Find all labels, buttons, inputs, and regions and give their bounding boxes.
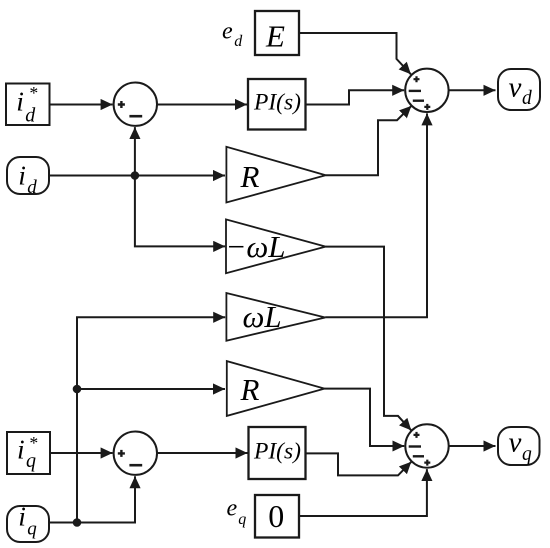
svg-text:v: v: [509, 72, 522, 104]
svg-text:i: i: [17, 433, 25, 464]
svg-text:q: q: [26, 450, 36, 472]
wire i_q branch up to wL input: [77, 317, 225, 522]
box vd output: [498, 69, 540, 110]
svg-text:i: i: [16, 85, 24, 116]
wire i_d* to summing junction S1: [50, 104, 113, 106]
box iq* (input i_q reference): [7, 432, 50, 474]
box iq (measured current): [7, 506, 49, 542]
sign minus low S4: [413, 455, 424, 457]
sign minus mid S2: [409, 90, 421, 92]
svg-text:PI(s): PI(s): [253, 439, 301, 465]
node junction on branch for R q: [73, 385, 82, 394]
node junction i_q line: [73, 518, 82, 527]
node junction on i_d line: [131, 171, 140, 180]
wire wL output to S2 bottom: [325, 113, 427, 317]
wire R q output to summing junction S4: [325, 389, 405, 446]
gain R d-axis triangle: [226, 147, 325, 203]
label vd text: [509, 72, 533, 109]
svg-text:i: i: [18, 159, 26, 190]
wire 0 box to S4 bottom: [299, 469, 427, 516]
sign plus top S2: [414, 76, 420, 82]
svg-text:d: d: [25, 105, 36, 127]
sign minus mid S4: [409, 445, 421, 447]
svg-text:R: R: [240, 159, 260, 194]
box id (measured current): [7, 157, 49, 194]
sign plus bottom S4: [424, 460, 430, 466]
svg-text:*: *: [29, 433, 38, 453]
gain -wL triangle: [226, 219, 326, 273]
svg-text:e: e: [222, 18, 233, 44]
box E (grid voltage feed-forward): [255, 11, 299, 55]
wire i_q* to summing junction S3: [50, 452, 113, 454]
svg-text:i: i: [18, 501, 26, 532]
sign plus S3: [118, 450, 125, 457]
sign minus S1: [129, 115, 142, 118]
svg-text:d: d: [27, 177, 37, 198]
svg-text:0: 0: [268, 498, 284, 534]
label i_q text: [18, 501, 37, 540]
sign plus top S4: [414, 432, 420, 438]
svg-text:*: *: [29, 83, 38, 103]
svg-text:ωL: ωL: [243, 299, 282, 334]
box vq output: [498, 427, 540, 465]
svg-text:q: q: [522, 444, 532, 465]
wire S1 to PI block: [157, 104, 247, 106]
svg-text:d: d: [234, 33, 243, 50]
block PI(s) q-axis: [249, 427, 306, 479]
label i_q* text: [17, 433, 38, 472]
label vq text: [509, 427, 533, 465]
label i_d* text: [16, 83, 37, 127]
wire S2 to vd: [449, 89, 496, 91]
wire S4 to vq: [449, 445, 496, 447]
block PI(s) d-axis: [248, 79, 306, 130]
wire junction to gain R q-axis: [77, 388, 225, 390]
svg-text:R: R: [240, 372, 260, 407]
svg-text:−ωL: −ωL: [226, 229, 286, 264]
wire -wL output to summing junction S4: [326, 247, 412, 431]
svg-text:E: E: [265, 19, 285, 54]
svg-text:q: q: [238, 511, 246, 528]
wire junction up to S1: [134, 127, 136, 175]
wire PI(s) q output to S4: [306, 453, 412, 475]
sign minus S3: [129, 464, 142, 467]
wire S3 to PI q block: [157, 452, 248, 454]
wire E to summing junction S2: [299, 33, 411, 74]
summing junction S1: [114, 83, 157, 126]
sign plus bottom S2: [424, 104, 430, 110]
box id* (input i_d reference): [6, 84, 50, 126]
summing junction S2: [405, 69, 448, 112]
wire i_d to gain R d-axis: [49, 175, 225, 177]
sign plus S1: [118, 101, 125, 108]
svg-text:v: v: [509, 427, 522, 459]
gain R q-axis triangle: [227, 361, 325, 416]
svg-text:PI(s): PI(s): [253, 90, 301, 116]
wire PI(s) d output to summing junction S2: [306, 90, 405, 104]
sign minus low S2: [413, 99, 424, 101]
wire R d output to S2: [326, 106, 412, 175]
label i_d text: [18, 159, 37, 198]
svg-text:d: d: [522, 88, 532, 109]
summing junction S3: [114, 432, 157, 475]
summing junction S4: [405, 424, 448, 467]
wire junction down to -wL gain: [135, 176, 225, 247]
svg-text:e: e: [227, 495, 238, 521]
wire i_q to S3 bottom: [49, 476, 135, 522]
box 0 (e_q value): [255, 495, 299, 538]
svg-text:q: q: [27, 519, 37, 540]
gain wL triangle: [226, 293, 325, 341]
